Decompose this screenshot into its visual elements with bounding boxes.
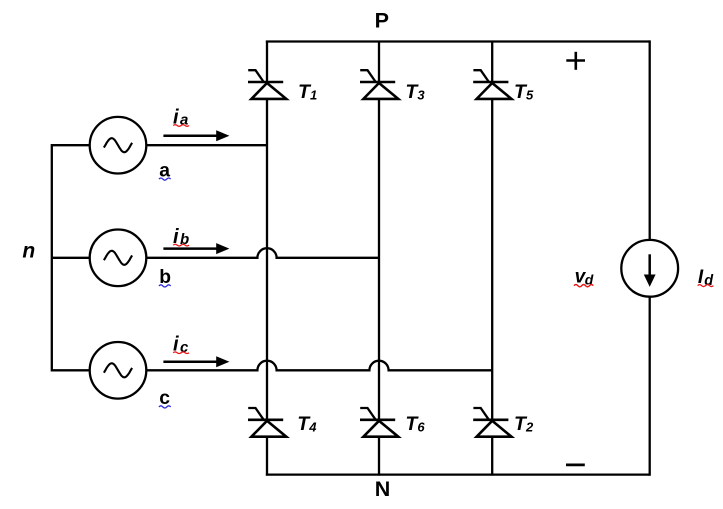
svg-text:5: 5 <box>526 87 534 102</box>
svg-text:2: 2 <box>525 419 534 434</box>
svg-text:6: 6 <box>417 419 425 434</box>
svg-text:N: N <box>375 477 391 501</box>
svg-text:n: n <box>22 239 35 262</box>
svg-text:1: 1 <box>310 87 317 102</box>
svg-text:P: P <box>375 9 389 33</box>
svg-text:3: 3 <box>417 87 425 102</box>
svg-text:4: 4 <box>308 419 317 434</box>
